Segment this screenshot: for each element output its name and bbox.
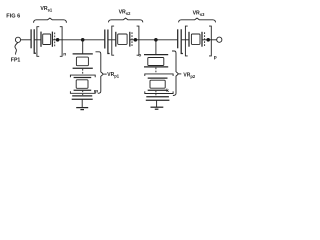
wire: to terminal FP2	[211, 39, 216, 41]
bracket bottom of VRp2 group, subscript k	[145, 91, 173, 93]
brace VRs1	[34, 18, 67, 23]
dashed link	[155, 91, 157, 93]
svg-text:VRp1: VRp1	[107, 72, 119, 78]
wire: to shunt node 2	[139, 39, 178, 41]
bracket ] of VRs3 group, subscript p	[209, 26, 211, 56]
dashed link to capacitor	[155, 94, 157, 96]
brace VRp2	[172, 51, 179, 96]
FP1 leader squiggle	[15, 43, 18, 55]
resonator VRs1 box	[43, 34, 51, 45]
ground stem	[81, 99, 83, 107]
resonator VRs1 right plate	[51, 32, 53, 47]
terminal right	[217, 37, 222, 42]
resonator VRp1b bottom plate	[74, 89, 92, 91]
brace VRs3	[179, 18, 216, 22]
dashed repeat line VRs1	[54, 33, 56, 47]
resonator VRs3 box	[191, 34, 200, 44]
resonator VRs1 left plate	[40, 32, 42, 47]
bracket [ of VRs3 group	[185, 26, 187, 56]
resonator VRp1b box	[76, 80, 88, 89]
svg-text:k: k	[166, 88, 169, 94]
dashed repeat line VRs3	[204, 32, 206, 46]
node dot shunt 1	[81, 38, 85, 42]
resonator VRp1b top plate	[74, 77, 92, 79]
capacitor C2	[104, 30, 106, 49]
label VRp2	[179, 73, 181, 75]
svg-text:m: m	[94, 90, 98, 95]
resonator VRs2 left plate	[115, 32, 117, 47]
capacitor to ground 1	[72, 95, 92, 97]
dashed repeat link	[82, 69, 84, 75]
junction dot n2	[134, 38, 138, 42]
resonator VRp2b top plate	[148, 77, 168, 79]
svg-text:VRp2: VRp2	[183, 73, 195, 80]
svg-text:n: n	[63, 53, 66, 58]
bracket ] of VRs2 group, subscript o	[137, 26, 139, 55]
dashed repeat link	[155, 68, 157, 74]
wire down from node 2	[155, 41, 157, 55]
dashed link to capacitor	[82, 94, 84, 96]
bracket top of VRp1 group	[70, 75, 95, 77]
resonator VRp2a box	[148, 58, 164, 66]
ground	[76, 107, 88, 109]
ground stem	[156, 100, 158, 107]
resonator VRs3 left plate	[188, 32, 190, 47]
bracket top of VRp2 group	[145, 74, 173, 76]
dashed repeat line VRs2	[131, 32, 133, 46]
wire: FP1 to C1	[21, 39, 31, 41]
resonator VRp1a box	[76, 57, 88, 66]
resonator VRp1a top plate	[73, 53, 93, 55]
svg-text:p: p	[214, 56, 217, 61]
svg-text:FIG 6: FIG 6	[6, 14, 20, 20]
bracket [ of VRs2 group	[112, 26, 114, 55]
bracket [ of VRs1 group	[37, 27, 39, 57]
bracket ] of VRs1 group, subscript n	[60, 27, 62, 57]
capacitor C1	[30, 29, 32, 48]
svg-text:o: o	[138, 53, 141, 58]
bracket bottom of VRp1 group, subscript m	[70, 91, 95, 93]
node dot shunt 2	[154, 38, 158, 42]
label VRp1	[104, 73, 107, 75]
resonator VRp2b box	[150, 80, 165, 88]
wire to node	[130, 39, 139, 41]
wire to node	[52, 39, 62, 41]
wire: to shunt node 1	[62, 39, 105, 41]
wire: C2 to VRs2	[108, 39, 116, 41]
svg-text:VRs2: VRs2	[119, 10, 131, 17]
brace VRp1	[96, 52, 104, 94]
resonator VRp2a top plate	[144, 54, 168, 56]
wire down from node 1	[82, 41, 84, 54]
wire: C3 to VRs3	[181, 39, 189, 41]
ground	[151, 106, 164, 108]
dashed link	[82, 91, 84, 93]
resonator VRs2 box	[118, 34, 127, 44]
terminal FP1	[15, 37, 20, 42]
junction dot n1	[56, 38, 60, 42]
wire: C1 to VRs1	[34, 39, 41, 41]
resonator VRs2 right plate	[129, 32, 131, 47]
resonator VRs3 right plate	[201, 32, 203, 47]
junction dot n3	[206, 38, 210, 42]
svg-text:VRs1: VRs1	[40, 6, 52, 13]
capacitor C3	[177, 29, 179, 48]
capacitor to ground 2	[146, 96, 169, 98]
resonator VRp1a bottom plate	[73, 67, 93, 69]
svg-text:FP1: FP1	[11, 57, 21, 63]
resonator VRp2b bottom plate	[148, 89, 168, 91]
brace VRs2	[109, 18, 143, 22]
wire to node	[202, 39, 211, 41]
resonator VRp2a bottom plate	[144, 66, 168, 68]
svg-text:VRs3: VRs3	[193, 11, 205, 18]
